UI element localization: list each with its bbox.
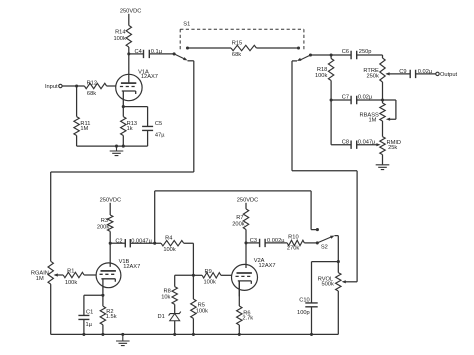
tube V2A [232, 258, 276, 297]
wire plate node to C4 [129, 53, 144, 55]
svg-text:C5: C5 [155, 121, 162, 127]
wire V2A plate lead [245, 243, 247, 268]
terminal Input [45, 84, 62, 90]
wire R13 to ground rail [122, 136, 124, 147]
wire bypass down to RVOL wiper [356, 171, 358, 282]
svg-text:R15: R15 [232, 41, 242, 47]
svg-text:270k: 270k [287, 246, 299, 252]
svg-text:C9: C9 [399, 69, 406, 75]
wire R11 to ground rail [76, 136, 78, 147]
svg-text:2.7k: 2.7k [242, 316, 253, 322]
resistor R3 [97, 215, 113, 231]
svg-text:100p: 100p [297, 310, 310, 316]
wire C7 left [331, 99, 351, 101]
resistor R13 [121, 117, 137, 136]
potentiometer RVOL [318, 273, 341, 291]
wire C2 to R4 [130, 242, 161, 244]
node R15 right contact [297, 46, 300, 49]
svg-text:S1: S1 [183, 21, 190, 27]
wire V1A ground rail [77, 145, 148, 147]
wire bypass to RGAIN [51, 172, 194, 261]
diode D1 (zener) [158, 312, 181, 321]
tube V1B [96, 259, 140, 294]
wire bypass across [292, 170, 357, 172]
terminal Output [436, 72, 458, 78]
switch S1 right pole [297, 53, 312, 60]
node V2A plate junction [244, 241, 247, 244]
wire RVOL node to C10 [312, 262, 339, 303]
node V1A plate junction [127, 52, 130, 55]
svg-text:1M: 1M [368, 118, 376, 124]
wire plate node to C3 [246, 242, 260, 244]
resistor R1 [63, 269, 84, 287]
wire C1 to rail [82, 319, 85, 336]
wire S2 throw to RVOL node [335, 236, 339, 262]
wire V2A cathode to R6 [238, 281, 240, 306]
node C7 left junction [330, 98, 333, 101]
wire R12 to V1A grid [107, 85, 116, 87]
svg-text:200k: 200k [97, 224, 109, 230]
wire RVOL bottom to rail [337, 291, 339, 334]
svg-text:D1: D1 [158, 314, 165, 320]
wire junction to R9 [193, 274, 202, 276]
resistor R10 [287, 235, 304, 252]
wire S1 left bypass down [193, 61, 195, 172]
wire C10 to rail [310, 307, 313, 336]
wire cathode to R13 [122, 107, 124, 117]
node RVOL top junction [337, 260, 340, 263]
wire C4 to S1 left pole [149, 53, 174, 55]
svg-text:68k: 68k [232, 52, 241, 58]
wire S1 right throw to bypass [292, 60, 297, 62]
resistor R8 [161, 287, 177, 305]
wire bottom ground rail [51, 333, 339, 335]
resistor R9 [202, 269, 221, 285]
svg-text:R1: R1 [67, 269, 74, 275]
wire R5 to rail [192, 318, 195, 336]
wire C7 node down to C8 [331, 100, 351, 145]
wiper RMID wire [357, 143, 381, 146]
wire feed down to S2 contact [311, 191, 317, 230]
wire feed across to S2 [155, 190, 311, 192]
svg-text:R7: R7 [236, 215, 243, 221]
svg-text:1k: 1k [127, 126, 133, 132]
svg-text:12AX7: 12AX7 [259, 263, 276, 269]
svg-text:1.5k: 1.5k [106, 314, 117, 320]
wire R18 lead [330, 55, 332, 59]
wire cathode to C1 [84, 295, 103, 315]
svg-text:1M: 1M [80, 126, 88, 132]
wire R1 to V1B grid [84, 274, 96, 276]
capacitor C3 [250, 238, 286, 247]
wire bypass down right [291, 61, 293, 171]
wire RGAIN to bottom rail [50, 284, 52, 334]
svg-text:10k: 10k [161, 295, 170, 301]
wire C9 to output [416, 73, 436, 75]
svg-text:250VDC: 250VDC [120, 9, 142, 15]
wire RMID to ground [382, 155, 384, 165]
svg-text:12AX7: 12AX7 [141, 74, 158, 80]
potentiometer RTRE [363, 58, 385, 82]
ground tone stack [376, 165, 390, 170]
ground bottom rail [116, 334, 130, 345]
potentiometer RBASS [360, 100, 386, 124]
resistor R2 [100, 306, 117, 325]
svg-text:12AX7: 12AX7 [123, 264, 140, 270]
switch S1 left pole [173, 52, 188, 60]
svg-text:250VDC: 250VDC [100, 198, 122, 204]
wire R4 to corner down [184, 243, 194, 275]
svg-text:100k: 100k [163, 247, 175, 253]
wire R7 to plate node [245, 230, 247, 243]
wire junction to R8 branch [175, 275, 194, 286]
op V1A plate lead [128, 54, 130, 83]
svg-text:S2: S2 [321, 244, 328, 250]
potentiometer RGAIN [31, 261, 54, 284]
capacitor C4 [135, 49, 163, 58]
svg-text:R10: R10 [288, 235, 298, 241]
wire R2 to rail [101, 325, 104, 336]
node C2/R4 junction [153, 242, 156, 245]
resistor R14 [113, 25, 131, 47]
svg-text:1µ: 1µ [86, 322, 93, 328]
wire C3 to R10 [265, 242, 287, 244]
wire V1B plate lead [109, 243, 111, 267]
wire R15 right [256, 47, 298, 49]
resistor R18 [315, 59, 334, 81]
wiper RTRE [385, 72, 410, 75]
svg-text:C7: C7 [342, 94, 349, 100]
resistor R11 [74, 117, 91, 136]
node S2 upper contact [316, 228, 319, 231]
svg-text:R12: R12 [87, 80, 97, 86]
wire D1 to rail [173, 321, 176, 336]
wire S1 pole to R18 [311, 54, 352, 56]
capacitor C5 [142, 121, 165, 138]
svg-text:R4: R4 [165, 235, 172, 241]
svg-text:R9: R9 [205, 269, 212, 275]
wire R18 to C7 node [330, 81, 332, 101]
resistor R15 [231, 41, 256, 59]
svg-text:Output: Output [440, 72, 457, 78]
wire junction to R5 [192, 275, 194, 299]
node R18 top junction [330, 53, 333, 56]
wire R14 to plate node [128, 47, 130, 54]
svg-text:250p: 250p [359, 49, 372, 55]
svg-text:C10: C10 [299, 297, 309, 303]
wiper RBASS loop [383, 100, 396, 121]
capacitor C1 [78, 310, 93, 329]
tube V1A [116, 69, 158, 106]
wire cathode to C5 [123, 107, 147, 127]
wire R3 to plate node [109, 231, 111, 243]
switch S1 dashed gang box [180, 21, 304, 51]
svg-text:100k: 100k [204, 279, 216, 285]
svg-text:25k: 25k [388, 145, 397, 151]
resistor R4 [161, 235, 184, 253]
resistor R7 [232, 209, 248, 230]
node 250VDC (V2A supply) [237, 198, 259, 209]
switch S2 [316, 236, 335, 251]
capacitor C8 [342, 139, 376, 149]
svg-text:68k: 68k [87, 91, 96, 97]
wire RBASS to RMID [382, 121, 384, 137]
capacitor C6 [342, 49, 372, 59]
wire input node to R11 [76, 86, 78, 117]
node C7 right junction [381, 98, 384, 101]
node V1B plate junction [109, 242, 112, 245]
wire input to R12 [62, 85, 84, 87]
wire C6 to RTRE [357, 55, 383, 58]
svg-text:100k: 100k [65, 280, 77, 286]
wire RVOL top lead [337, 262, 339, 273]
wire S1 left throw to bypass [188, 60, 194, 62]
capacitor C9 [399, 69, 433, 78]
svg-text:C6: C6 [342, 49, 349, 55]
svg-text:C2: C2 [115, 238, 122, 244]
wire to RVOL wiper arrow [342, 280, 358, 283]
wire R15 left [188, 47, 232, 49]
svg-text:R3: R3 [101, 218, 108, 224]
svg-text:R8: R8 [164, 289, 171, 295]
svg-text:100k: 100k [196, 308, 208, 314]
resistor R12 [84, 80, 106, 97]
resistor R5 [191, 299, 208, 318]
potentiometer RMID [380, 137, 401, 155]
svg-text:C3: C3 [250, 238, 257, 244]
capacitor C10 [297, 297, 318, 316]
svg-text:R14: R14 [115, 30, 125, 36]
node input/R11 junction [75, 84, 78, 87]
svg-text:200k: 200k [232, 222, 244, 228]
svg-text:C8: C8 [342, 139, 349, 145]
wire C5 to ground rail [147, 130, 149, 146]
wire feed up from C2/R4 node [154, 191, 156, 243]
node rail/ground junction [121, 333, 124, 336]
node V1A cathode junction [122, 105, 125, 108]
node 250VDC (V1B supply) [100, 198, 122, 215]
node rail junctions [115, 145, 125, 148]
svg-text:250k: 250k [366, 74, 378, 80]
svg-text:Input: Input [45, 84, 58, 90]
wiper RGAIN [54, 273, 64, 276]
wire R10 to S2 pole [304, 242, 317, 244]
svg-text:C1: C1 [86, 310, 93, 316]
node R15 left contact [186, 46, 189, 49]
svg-text:500k: 500k [321, 282, 333, 288]
capacitor C7 [342, 94, 373, 104]
resistor R6 [237, 306, 254, 325]
wire RTRE to C7 node [382, 82, 384, 100]
wire R9 to V2A grid [221, 274, 232, 276]
wire plate node to C2 [110, 242, 125, 244]
node 250VDC (V1A supply) [120, 9, 142, 26]
wire C7 right [357, 99, 383, 101]
svg-text:1M: 1M [36, 276, 44, 282]
wire cathode to R2 [102, 295, 104, 306]
svg-text:100k: 100k [315, 73, 327, 79]
svg-text:47µ: 47µ [155, 132, 165, 138]
wire R6 to rail [238, 325, 241, 336]
node V1B cathode junction [101, 294, 104, 297]
capacitor C2 [115, 238, 152, 247]
wire R8 to D1 [174, 304, 176, 313]
svg-text:250VDC: 250VDC [237, 198, 259, 204]
svg-text:C4: C4 [135, 49, 142, 55]
ground V1A stage [110, 146, 124, 156]
node R9/R5 junction [192, 274, 195, 277]
svg-text:100k: 100k [113, 36, 125, 42]
